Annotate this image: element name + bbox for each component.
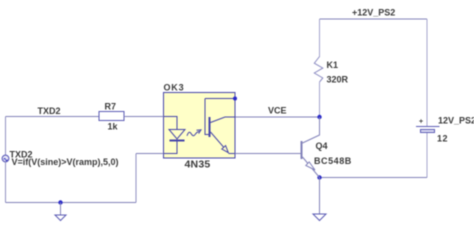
wire VCE from optocoupler to K1/Q4 [235, 116, 320, 118]
svg-text:R7: R7 [105, 102, 117, 112]
svg-text:BC548B: BC548B [314, 156, 352, 166]
wire OK3 cathode return vertical [135, 154, 137, 203]
svg-text:OK3: OK3 [164, 83, 185, 93]
wire top rail +12V_PS2 [320, 18, 428, 20]
ground right [313, 214, 326, 221]
wire OK3 emitter to Q4 base [235, 153, 301, 155]
svg-text:TXD2: TXD2 [38, 106, 61, 116]
wire battery bottom down [426, 133, 428, 178]
svg-text:K1: K1 [327, 60, 339, 70]
wire R7 to OK3 anode [124, 116, 164, 118]
svg-text:Q4: Q4 [316, 141, 328, 151]
wire from top rail down to K1 [319, 19, 321, 57]
svg-text:V=if(V(sine)>V(ramp),5,0): V=if(V(sine)>V(ramp),5,0) [12, 157, 119, 167]
wire K1 bottom to VCE node [319, 82, 321, 117]
resistor R7 1k [99, 112, 124, 121]
battery 12V_PS2 [416, 127, 440, 133]
svg-text:1k: 1k [108, 122, 119, 132]
transistor Q4 BC548B [302, 117, 320, 178]
wire TXD2 net from source to R7 [6, 116, 100, 118]
optocoupler OK3 4N35 body [164, 93, 236, 159]
svg-text:+: + [419, 119, 423, 126]
svg-text:12V_PS2: 12V_PS2 [438, 115, 474, 125]
wire right vertical from top rail to battery [426, 19, 428, 126]
svg-text:12: 12 [437, 134, 448, 144]
svg-text:4N35: 4N35 [185, 159, 211, 171]
resistor K1 320R [314, 57, 323, 83]
ground left [55, 215, 66, 221]
junction base pin dot on OK3 [233, 97, 237, 101]
svg-text:VCE: VCE [268, 106, 287, 116]
wire left vertical down from TXD2 net [5, 117, 7, 156]
junction ground rail [58, 200, 62, 204]
wire Q4 emitter to ground [319, 178, 321, 215]
svg-text:+12V_PS2: +12V_PS2 [352, 8, 395, 18]
wire source bottom to rail [5, 162, 7, 203]
wire emitter node to battery [320, 177, 428, 179]
wire ground rail [6, 202, 137, 204]
LED inside OK3 [164, 117, 186, 154]
junction VCE [317, 115, 321, 119]
light coupling squiggle [187, 130, 201, 136]
svg-text:320R: 320R [327, 75, 349, 85]
phototransistor inside OK3 [205, 99, 235, 154]
wire OK3 cathode return horizontal [136, 153, 164, 155]
junction emitter node [317, 175, 321, 179]
voltage source TXD2 [2, 155, 9, 162]
wire ground stem left [60, 203, 62, 216]
